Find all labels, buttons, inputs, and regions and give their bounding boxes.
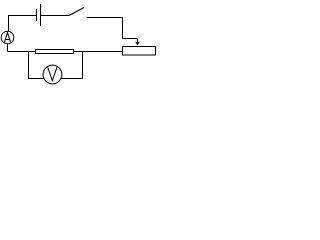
ammeter label A [4,33,10,43]
wire resistor to rheostat [74,51,123,53]
voltmeter bottom-right wire [61,78,83,80]
switch S1 blade [69,8,84,16]
wire ammeter to bottom corner [7,44,9,52]
wire left vertical down to ammeter [8,16,10,32]
voltmeter right branch wire [82,52,84,79]
ammeter A1 circle [1,31,14,44]
wire top-left horizontal [8,15,37,17]
rheostat R2 body [123,47,156,56]
battery B1 short plate [36,9,38,21]
wire battery to switch [41,15,70,17]
wire right vertical down [122,18,124,39]
rheostat slider arrowhead [135,42,139,46]
wire jog to slider arrow [123,38,138,40]
voltmeter V1 circle [43,65,62,84]
wire switch to top-right corner [87,17,123,19]
rheostat slider arrow stem [137,39,139,43]
battery B1 long plate [40,4,42,26]
voltmeter label V [48,67,58,81]
voltmeter left branch wire [28,52,30,79]
voltmeter bottom-left wire [28,78,44,80]
wire horizontal to resistor [8,51,36,53]
resistor R1 body [36,50,74,54]
